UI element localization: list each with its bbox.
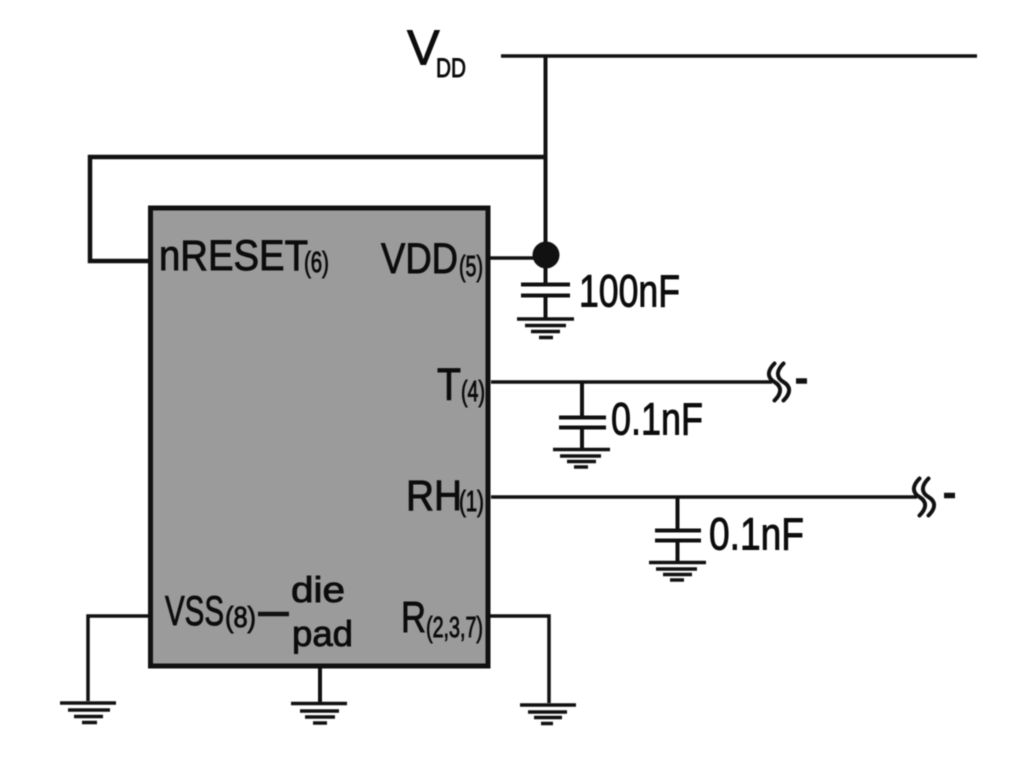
svg-text:RH: RH bbox=[406, 472, 462, 520]
svg-text:nRESET: nRESET bbox=[159, 232, 308, 280]
capacitor C1 100nF bbox=[521, 264, 570, 318]
svg-text:0.1nF: 0.1nF bbox=[611, 394, 703, 445]
wire nRESET to VDD loop bbox=[90, 157, 545, 261]
wire T pin bbox=[491, 380, 772, 384]
svg-text:(2,3,7): (2,3,7) bbox=[426, 612, 483, 644]
svg-text:VDD: VDD bbox=[381, 235, 458, 283]
wire R pin to ground bbox=[488, 616, 549, 703]
dash after RH break bbox=[944, 493, 955, 499]
ground under C3 bbox=[649, 563, 706, 581]
die pad dash bbox=[258, 612, 289, 617]
svg-text:die: die bbox=[291, 569, 345, 610]
ground VSS bbox=[60, 703, 116, 723]
pin label T(4) bbox=[437, 359, 485, 410]
pin label VDD(5) bbox=[381, 235, 483, 283]
wire RH pin bbox=[491, 495, 917, 499]
svg-text:0.1nF: 0.1nF bbox=[709, 509, 804, 560]
svg-text:(6): (6) bbox=[304, 247, 329, 279]
svg-text:VSS: VSS bbox=[165, 587, 224, 634]
node VDD power rail bbox=[501, 54, 977, 58]
svg-text:DD: DD bbox=[436, 53, 466, 83]
svg-text:(1): (1) bbox=[459, 486, 484, 518]
ground R bbox=[520, 705, 576, 724]
break symbol T row bbox=[769, 364, 789, 401]
label VDD bbox=[407, 22, 466, 84]
svg-text:100nF: 100nF bbox=[579, 266, 680, 317]
pin label VSS(8) bbox=[165, 587, 256, 634]
capacitor C2 0.1nF bbox=[559, 382, 606, 448]
svg-text:(8): (8) bbox=[225, 602, 256, 634]
IC box U1 bbox=[151, 208, 489, 666]
capacitor C3 0.1nF bbox=[655, 497, 701, 561]
pin label nRESET(6) bbox=[159, 232, 329, 280]
pin label R(2,3,7) bbox=[401, 593, 483, 644]
ground under C1 bbox=[517, 319, 574, 338]
svg-text:T: T bbox=[437, 359, 461, 410]
dash after T break bbox=[796, 378, 807, 384]
svg-text:pad: pad bbox=[292, 613, 353, 654]
ground die pad bbox=[291, 704, 347, 724]
wire VDD pin to junction bbox=[488, 256, 540, 260]
svg-text:R: R bbox=[401, 593, 426, 642]
svg-text:(5): (5) bbox=[459, 251, 483, 283]
pin label RH(1) bbox=[406, 472, 484, 520]
svg-text:(4): (4) bbox=[461, 376, 485, 408]
wire die pad stub bbox=[318, 666, 322, 702]
junction dot bbox=[533, 242, 560, 269]
wire VSS pin to ground bbox=[88, 616, 151, 701]
label die pad bbox=[291, 569, 353, 654]
ground under C2 bbox=[553, 450, 610, 468]
break symbol RH row bbox=[914, 479, 934, 516]
wire VDD vertical drop bbox=[544, 56, 548, 252]
